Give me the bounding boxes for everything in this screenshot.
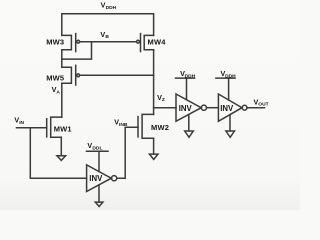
ground (INV2) [185, 115, 194, 138]
svg-text:MW4: MW4 [148, 37, 167, 46]
wire MW5 drain to MW1 drain (node VA) [61, 83, 63, 117]
svg-text:IN: IN [19, 120, 24, 126]
output bubble [201, 105, 206, 110]
svg-text:OUT: OUT [258, 102, 268, 108]
node VA label [52, 85, 61, 95]
svg-text:INB: INB [119, 122, 128, 128]
wire VB (MW3 gate to MW4 gate) [80, 41, 137, 43]
svg-text:A: A [56, 89, 60, 95]
label VDDH (top rail) [101, 1, 117, 11]
transistor MW1 (NMOS input) [47, 117, 62, 137]
wire MW4 drain to MW2 drain (node VZ) [153, 50, 155, 115]
gate bubble [137, 40, 140, 43]
VDDH rail (top) [62, 14, 154, 36]
svg-text:MW2: MW2 [151, 123, 169, 132]
transistor MW5 (PMOS cascode) [62, 65, 80, 85]
wire INV2 output to INV3 input [207, 107, 219, 109]
svg-text:INV: INV [89, 174, 103, 183]
svg-text:INV: INV [220, 104, 234, 113]
wire INV1 output to MW2 gate (node VINB) [117, 127, 138, 178]
svg-text:MW1: MW1 [54, 124, 72, 133]
gate bubble [77, 40, 80, 43]
channel + drain/source stubs [142, 114, 154, 138]
ground (INV1) [95, 185, 103, 207]
svg-text:DDH: DDH [106, 5, 117, 11]
svg-text:Z: Z [162, 97, 165, 103]
gate bar [137, 117, 139, 137]
wire VIN to MW1 gate [17, 127, 47, 129]
wire MW5 gate to node VZ [80, 74, 154, 76]
node VINB label [114, 118, 128, 128]
transistor MW3 (PMOS, diode-connected) [62, 34, 80, 52]
svg-text:INV: INV [179, 104, 193, 113]
supply VDDL (bar over INV1) [87, 141, 109, 172]
output bubble [242, 105, 247, 110]
supply VDDH (bar over INV3) [216, 69, 236, 100]
channel + drain/source stubs [51, 117, 62, 137]
wire VIN branch down to INV1 input [30, 128, 86, 178]
wire INV3 output (node VOUT) [247, 107, 265, 109]
svg-text:DDL: DDL [92, 145, 102, 151]
wire VZ to INV2 input [154, 107, 176, 109]
node VZ label [157, 93, 165, 103]
inverter INV3 (second VDDH buffer) [218, 94, 247, 121]
gate bar [46, 119, 48, 137]
gate bar [75, 65, 77, 85]
node VIN label [14, 116, 24, 126]
output bubble [112, 176, 117, 181]
gate bar [75, 34, 77, 52]
gate bar [140, 34, 142, 52]
node VOUT label [254, 97, 269, 107]
wire MW3 drain to MW5 source [61, 50, 63, 67]
channel + source/drain stubs [62, 67, 72, 83]
svg-text:MW5: MW5 [46, 74, 64, 83]
svg-text:MW3: MW3 [46, 37, 64, 46]
node VB label [100, 30, 109, 40]
gate bubble [77, 74, 80, 77]
supply VDDH (bar over INV2) [176, 69, 196, 100]
transistor MW4 (PMOS mirror) [137, 34, 154, 52]
ground (INV3) [226, 115, 235, 138]
transistor MW2 (NMOS input, inverted phase) [138, 114, 154, 138]
ground (MW1 source) [57, 137, 66, 160]
ground (MW2 source) [149, 138, 158, 159]
svg-text:B: B [105, 34, 109, 40]
channel + source/drain stubs [62, 35, 72, 49]
inverter INV2 (first VDDH buffer) [176, 94, 206, 121]
inverter INV1 (VDDL domain) [87, 165, 117, 192]
channel + source/drain stubs [144, 35, 153, 49]
wire VB to MW3 drain (diode connection) [62, 42, 92, 59]
